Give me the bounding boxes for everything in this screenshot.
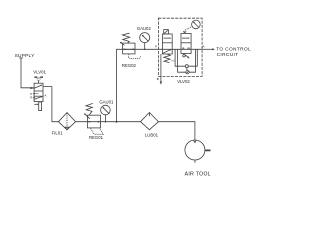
svg-text:R: R (30, 96, 33, 100)
svg-text:VLV01: VLV01 (33, 70, 46, 75)
VLV01 palm button actuator (34, 77, 43, 83)
gauge GAU01 (101, 105, 111, 122)
svg-text:VLV02: VLV02 (177, 79, 190, 84)
port arrows P R (33, 93, 36, 95)
main line through VLV02 (158, 48, 202, 50)
junction riser (116, 121, 118, 123)
right valve pilot dashed (185, 26, 193, 32)
svg-text:REG01: REG01 (89, 135, 104, 140)
svg-text:FIL01: FIL01 (52, 131, 64, 136)
gauge GAU02 (140, 33, 150, 50)
svg-text:GAU02: GAU02 (137, 26, 152, 31)
junction dot gauge GAU01 (105, 121, 107, 123)
regulator REG02 (120, 33, 141, 58)
svg-text:A: A (44, 94, 46, 98)
supply symbol (19, 57, 24, 60)
solenoid actuator left valve (164, 30, 169, 34)
dashed enclosure VLV02 (158, 18, 202, 76)
svg-text:REG02: REG02 (122, 63, 137, 68)
svg-text:SUPPLY: SUPPLY (15, 53, 35, 59)
inlet arrow at VLV01 (29, 87, 32, 89)
main line lower (76, 121, 141, 123)
regulator REG01 (84, 103, 103, 134)
svg-text:P: P (155, 45, 157, 49)
air tool circle (185, 140, 205, 160)
svg-text:TO CONTROL: TO CONTROL (216, 46, 251, 52)
svg-text:AIR TOOL: AIR TOOL (185, 172, 211, 178)
wire supply to VLV01 (21, 60, 34, 88)
svg-text:A: A (203, 44, 205, 48)
wire VLV01 to FIL01 (43, 87, 58, 122)
left valve spring (164, 54, 170, 63)
svg-text:CIRCUIT: CIRCUIT (217, 52, 239, 58)
valve VLV01 body (33, 83, 43, 101)
wire LUB01 to air tool (158, 122, 195, 140)
bottom cell flow path (34, 97, 42, 100)
air tool right stub (205, 149, 211, 151)
svg-text:GAU01: GAU01 (99, 100, 114, 105)
gauge in VLV02 (192, 20, 201, 29)
bypass loop (171, 49, 197, 74)
riser wire to REG02 (117, 49, 123, 121)
right valve body VLV02 (181, 33, 191, 53)
top main line (123, 48, 159, 50)
arrowhead into air tool (193, 140, 196, 143)
junction dot gauge GAU02 (144, 49, 146, 51)
air tool bottom stub (194, 160, 196, 163)
lubricator LUB01 (141, 112, 159, 129)
exhaust arrow (34, 103, 38, 105)
right valve pilot circle and arrow (183, 53, 185, 56)
top cell flow path (34, 85, 41, 88)
output arrow to control circuit (202, 48, 213, 50)
exhaust muffler (39, 101, 41, 103)
exhaust stub dashed box (157, 54, 162, 85)
svg-text:LUB01: LUB01 (145, 132, 159, 137)
filter FIL01 (58, 113, 75, 130)
left valve body VLV02 (162, 34, 172, 54)
